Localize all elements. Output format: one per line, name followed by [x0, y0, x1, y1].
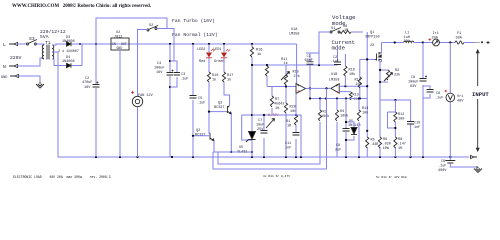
svg-text:R2: R2 [395, 69, 399, 73]
node rail junctions [79, 41, 452, 45]
svg-text:C8: C8 [411, 76, 415, 80]
node bank junctions [309, 97, 311, 99]
capacitor C8 2uF [343, 129, 350, 132]
node C1 output junction [309, 87, 311, 89]
wire Q2 base [193, 135, 210, 137]
svg-text:R8: R8 [398, 138, 402, 142]
wire switch throw to C4 node [157, 29, 174, 62]
svg-text:.1uF: .1uF [435, 97, 443, 101]
svg-text:100uF: 100uF [154, 67, 165, 71]
svg-text:R12: R12 [398, 113, 404, 117]
voltmeter Vr1 40V [445, 90, 448, 93]
node U5 branch [251, 114, 253, 116]
svg-text:2 x 1N4007: 2 x 1N4007 [58, 50, 79, 54]
node y65 junctions [251, 64, 253, 66]
svg-text:16V: 16V [156, 71, 163, 75]
svg-text:Red: Red [199, 59, 205, 64]
svg-text:GND: GND [1, 76, 7, 80]
wire op-amp common output line [306, 87, 331, 89]
wire R3 column to loop A [218, 99, 320, 165]
wire U5 column [251, 44, 253, 157]
svg-text:1%: 1% [398, 147, 403, 151]
svg-text:mode: mode [332, 45, 345, 52]
svg-text:Vr1: Vr1 [457, 94, 463, 99]
svg-text:10k: 10k [356, 82, 362, 87]
svg-text:4k642: 4k642 [274, 102, 285, 107]
wire C3 branch [170, 61, 177, 87]
wire U1A supply drop [296, 44, 298, 84]
svg-text:40V: 40V [457, 100, 464, 104]
wire D5 C8 column [345, 99, 347, 158]
wire U5 ref branch [242, 115, 252, 140]
svg-text:C8: C8 [336, 144, 340, 148]
svg-text:1%: 1% [275, 107, 280, 111]
svg-text:100: 100 [398, 118, 404, 122]
arrow input span [476, 50, 479, 151]
capacitor C5 .1uF [190, 96, 197, 99]
svg-text:T1: T1 [45, 40, 51, 46]
resistor R9 .020 10W [378, 137, 381, 148]
svg-text:ELECTRONIC LOAD 40V 20A ma: ELECTRONIC LOAD 40V 20A max 200w rev. 20… [13, 175, 111, 179]
svg-text:10k: 10k [362, 111, 368, 116]
svg-text:C7: C7 [258, 119, 262, 123]
svg-text:GND: GND [117, 46, 123, 50]
svg-text:1k: 1k [257, 52, 261, 57]
wire T1 secondary top to D3 [52, 44, 66, 45]
svg-text:R14: R14 [362, 107, 368, 111]
svg-text:220V: 220V [10, 55, 22, 61]
svg-text:R15: R15 [293, 71, 299, 75]
svg-text:10uF: 10uF [256, 124, 264, 128]
wire Q2 collector [209, 133, 210, 134]
wire L to switch [17, 43, 26, 45]
wire GND to earth [18, 76, 40, 82]
node bank2 junctions [394, 99, 396, 101]
node y86.5 junction [285, 85, 287, 87]
svg-text:IRFP150: IRFP150 [365, 36, 380, 40]
svg-text:.1uF: .1uF [438, 165, 446, 169]
svg-text:Fan Turbo (16V): Fan Turbo (16V) [172, 18, 215, 24]
wire R5 column [366, 86, 368, 157]
terminal + output [475, 42, 480, 44]
resistor R16 1k [250, 47, 253, 57]
svg-text:TL431: TL431 [237, 151, 248, 155]
wire loop B column [213, 88, 327, 169]
svg-text:LM358: LM358 [329, 79, 340, 83]
wire Vr1 column [449, 43, 451, 158]
svg-text:R19: R19 [355, 79, 361, 83]
svg-text:1R: 1R [287, 125, 292, 129]
svg-text:R7: R7 [275, 98, 279, 102]
wire C2 column [337, 45, 339, 62]
node ground junctions [95, 156, 452, 158]
capacitor C6 .1uF branch [423, 86, 430, 98]
node Q3 base junction [208, 111, 210, 113]
svg-text:LED2: LED2 [197, 48, 205, 52]
svg-text:1k: 1k [227, 78, 231, 83]
wire C10 column [410, 100, 412, 157]
wire C7 column [252, 115, 272, 157]
svg-text:5x R11 4r 47V R18: 5x R11 4r 47V R18 [376, 176, 407, 179]
svg-text:C11: C11 [285, 142, 291, 146]
svg-text:U2: U2 [116, 31, 120, 35]
node Q3 emitter junction [230, 151, 232, 153]
resistor R1 1R [294, 115, 297, 125]
wire Q2 emitter line [213, 141, 252, 152]
svg-text:7812: 7812 [114, 36, 122, 40]
wire switch to T1 [37, 44, 45, 45]
wire gate line [360, 58, 375, 60]
node C4 bottom [169, 86, 171, 88]
wire fan column [137, 107, 139, 157]
wire C5 column [192, 44, 194, 157]
wire R6 column [366, 32, 368, 86]
svg-text:1nF: 1nF [414, 126, 420, 130]
svg-text:C10: C10 [414, 122, 420, 126]
svg-text:R5: R5 [371, 139, 375, 143]
trimmer R2 22k [380, 70, 388, 82]
svg-text:2uF: 2uF [335, 149, 341, 153]
resistor R13 10k [339, 91, 351, 93]
svg-text:R4: R4 [340, 110, 344, 114]
svg-text:C4: C4 [157, 62, 161, 66]
svg-text:C3: C3 [181, 73, 185, 77]
svg-text:L: L [3, 42, 6, 48]
svg-text:.43R: .43R [370, 143, 379, 147]
wire R20 column [285, 87, 287, 158]
wire right bank bus y100 [380, 99, 411, 101]
wire T1 secondary bottom to D4 [52, 59, 66, 66]
svg-text:10k: 10k [349, 72, 355, 77]
svg-text:16V: 16V [84, 86, 91, 90]
svg-text:C5: C5 [198, 97, 202, 101]
node source junctions [379, 69, 381, 71]
wire S1 R6 net [319, 32, 363, 65]
node emitter line junction [251, 151, 253, 153]
wire C2 column [95, 44, 97, 157]
svg-text:R16: R16 [349, 69, 355, 73]
svg-text:3x R11 6r 0,47V: 3x R11 6r 0,47V [263, 175, 290, 178]
svg-text:N: N [3, 64, 6, 70]
svg-text:Q2: Q2 [196, 129, 200, 133]
svg-text:R16: R16 [256, 49, 262, 53]
svg-text:R17: R17 [227, 74, 233, 78]
svg-text:Q1: Q1 [370, 31, 374, 35]
svg-text:LED1: LED1 [213, 48, 221, 52]
svg-text:R10: R10 [212, 74, 218, 78]
wire R14 column [358, 99, 360, 158]
svg-text:LM358: LM358 [289, 33, 300, 37]
svg-text:R1: R1 [286, 120, 290, 124]
resistor R10 1k [207, 72, 210, 82]
svg-text:10W: 10W [383, 147, 390, 151]
svg-text:R20: R20 [290, 106, 296, 110]
node C7 top [263, 114, 265, 116]
terminal - input [471, 155, 478, 158]
svg-text:Green: Green [214, 59, 225, 64]
wire D3 to rail [72, 43, 82, 45]
resistor R19 10k [359, 59, 361, 98]
diode D5 branch [346, 122, 354, 140]
svg-text:1N4008: 1N4008 [62, 60, 75, 64]
svg-text:100k: 100k [321, 114, 329, 119]
resistor R12 100 [394, 112, 397, 122]
wire C1 column [306, 53, 319, 99]
svg-text:10k: 10k [290, 109, 296, 114]
transformer T1 [42, 45, 53, 60]
resistor R4 100k [335, 110, 338, 121]
wire turbo riser [96, 18, 167, 44]
node C4 top [169, 60, 171, 62]
wire R1 C11 column [272, 94, 296, 158]
svg-text:100uF: 100uF [408, 81, 419, 85]
svg-text:1nF: 1nF [285, 147, 291, 151]
wire LED1 column [224, 44, 230, 105]
svg-text:470uF: 470uF [82, 81, 93, 85]
trimmer arrow R7 [266, 119, 275, 129]
svg-text:Q3: Q3 [218, 102, 222, 106]
node output junctions [325, 87, 327, 89]
svg-text:R13: R13 [353, 94, 359, 98]
svg-text:INPUT: INPUT [472, 91, 489, 98]
svg-text:Ir1: Ir1 [433, 31, 439, 36]
svg-text:U5: U5 [239, 146, 243, 150]
svg-text:WWW.CHIRIO.COM 2008© Roberto: WWW.CHIRIO.COM 2008© Roberto Chirio: all… [12, 3, 151, 9]
wire R9 column [379, 100, 381, 157]
svg-text:U1A: U1A [291, 28, 298, 32]
capacitor C3 .1uF [174, 73, 180, 76]
svg-text:BC337: BC337 [214, 106, 225, 110]
node D5 junctions [345, 121, 347, 123]
wire Q3 emitter [230, 114, 232, 152]
resistor R8 .147 1% [394, 137, 397, 148]
resistor R7 4k642 1% [271, 87, 273, 116]
svg-text:U1B: U1B [331, 73, 337, 77]
ground earth symbol [36, 82, 44, 88]
resistor R5 .43R [366, 137, 369, 148]
wire R12 R8 column [394, 100, 396, 157]
svg-text:63V: 63V [410, 85, 417, 89]
svg-text:400V: 400V [438, 169, 447, 173]
svg-text:IN: IN [112, 42, 116, 46]
wire LED2 column [209, 44, 227, 133]
wire D4 up to rail [72, 44, 82, 66]
trimmer R15 22k [285, 65, 287, 87]
ground right [474, 167, 482, 173]
wire R4 column [336, 99, 338, 158]
wire y65 bus [252, 64, 338, 66]
wire Q1 source [380, 59, 382, 100]
svg-text:R9: R9 [383, 138, 387, 142]
svg-text:100k: 100k [340, 114, 348, 119]
wire middle bank bus y97 [310, 98, 367, 100]
wire T1 center tap [52, 51, 58, 53]
resistor R16 10k [344, 54, 346, 86]
wire ground rail [58, 52, 469, 157]
resistor R17 1k [222, 72, 225, 82]
wire C8b column [422, 43, 424, 158]
node Q2 base tap [192, 135, 194, 137]
svg-text:1k: 1k [212, 78, 216, 83]
wire N to T1 [17, 58, 44, 66]
fan motor M1 [131, 91, 134, 94]
svg-text:30A: 30A [456, 36, 463, 40]
node gate junction [366, 58, 368, 60]
wire R12 bypass loop [388, 112, 396, 128]
capacitor C10 1nF [407, 122, 414, 125]
wire U1A output [306, 88, 311, 90]
wire switch common to fan [138, 30, 148, 97]
wire Q1 drain [381, 43, 383, 54]
svg-text:22k: 22k [394, 73, 400, 78]
svg-text:25V: 25V [257, 128, 264, 132]
svg-text:5VA: 5VA [40, 34, 49, 40]
wire main V+ rail [77, 43, 475, 45]
wire C4 column [169, 44, 171, 157]
resistor R20 10k [284, 103, 287, 113]
svg-text:.1uF: .1uF [197, 102, 205, 106]
svg-text:2X: 2X [370, 44, 375, 48]
svg-text:Fan Normal (12V): Fan Normal (12V) [172, 32, 218, 38]
wire U1B plus input line [339, 85, 367, 87]
svg-text:C9: C9 [441, 160, 445, 164]
capacitor C11 1nF [293, 133, 300, 136]
svg-text:C6: C6 [436, 92, 440, 96]
svg-text:.147: .147 [398, 143, 406, 147]
svg-text:.020: .020 [383, 143, 391, 147]
resistor R3 100k [318, 110, 321, 121]
wire U2 gnd stem [119, 50, 121, 157]
wire ref bus y112 [296, 115, 301, 157]
svg-text:.1uF: .1uF [180, 78, 188, 82]
resistor R14 10k [357, 110, 360, 121]
node R11 bus junction [266, 64, 268, 66]
resistor R11 1k [267, 65, 296, 87]
